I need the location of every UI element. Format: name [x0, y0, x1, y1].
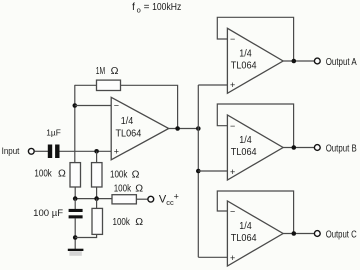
junction dot feedback/output: [175, 126, 180, 131]
svg-text:+: +: [230, 80, 235, 90]
op-amp U3 1/4 TL064: [227, 115, 283, 180]
svg-text:Ω: Ω: [58, 168, 66, 180]
Output A terminal: [314, 58, 320, 64]
label 100k ohm R2: [110, 168, 140, 180]
wire R2 top: [96, 151, 98, 162]
svg-text:100k: 100k: [114, 183, 132, 194]
svg-text:Output A: Output A: [326, 57, 357, 68]
wire U4 noninverting input: [198, 256, 227, 258]
junction dot ground node: [73, 235, 78, 240]
label 100k ohm R1: [34, 168, 66, 180]
wire U1 output to bus: [169, 128, 199, 130]
svg-text:100 µF: 100 µF: [33, 208, 63, 219]
svg-text:+: +: [114, 147, 119, 157]
svg-text:Ω: Ω: [132, 168, 140, 180]
label 100k ohm R4: [114, 182, 144, 194]
Output B terminal: [314, 145, 320, 151]
svg-text:1/4: 1/4: [239, 221, 252, 232]
wire 1M feedback left: [75, 84, 97, 86]
junction dot inverting node: [73, 103, 78, 108]
wire C2 to ground node: [74, 218, 76, 249]
op-amp U2 1/4 TL064: [227, 28, 283, 93]
wire node B to C2: [74, 199, 76, 209]
svg-text:f: f: [132, 1, 135, 13]
wire node B horizontal: [75, 198, 112, 200]
wire feedback vertical down to R1: [74, 85, 76, 163]
label Vcc+: [159, 192, 179, 208]
junction dot U4 output: [292, 231, 297, 236]
wire U3 feedback loop: [217, 104, 293, 148]
wire U3 noninverting input: [198, 170, 227, 172]
resistor R4 100k to Vcc: [112, 195, 136, 204]
op-amp U4 1/4 TL064: [227, 201, 283, 266]
svg-text:1/4: 1/4: [239, 48, 252, 59]
wire U2 noninverting input: [198, 84, 227, 86]
wire R4 to Vcc terminal: [136, 198, 147, 200]
wire U1 inverting input: [75, 105, 111, 107]
svg-text:TL064: TL064: [231, 60, 257, 71]
svg-text:−: −: [230, 34, 235, 44]
svg-text:100kHz: 100kHz: [152, 1, 181, 13]
svg-text:=: =: [144, 2, 150, 13]
wire U2 output: [283, 60, 314, 62]
wire R2 bottom: [96, 187, 98, 199]
junction dot U3 output: [292, 145, 297, 150]
resistor R1 100k: [70, 163, 81, 187]
junction dot node B right: [94, 196, 99, 201]
svg-text:Input: Input: [2, 146, 20, 156]
svg-text:Ω: Ω: [135, 182, 143, 194]
wire R5 top: [96, 199, 98, 209]
capacitor C1 1uF: [48, 145, 60, 159]
svg-text:1/4: 1/4: [239, 135, 252, 146]
svg-text:+: +: [230, 253, 235, 263]
wire U3 output: [283, 147, 314, 149]
resistor R3 1M: [97, 80, 121, 90]
svg-text:TL064: TL064: [116, 129, 142, 140]
ground: [68, 249, 84, 256]
junction dot output/bus: [196, 126, 201, 131]
Output C terminal: [314, 231, 320, 237]
svg-text:Output C: Output C: [326, 230, 357, 241]
wire U4 output: [283, 233, 314, 235]
wire 1M feedback right to output: [121, 85, 178, 128]
svg-text:Output B: Output B: [326, 144, 357, 155]
capacitor C2 100uF: [69, 209, 83, 219]
label 100k ohm R5: [113, 216, 144, 228]
label 1M ohm: [96, 65, 119, 77]
junction dot node B left: [73, 196, 78, 201]
label f_o = 100kHz: [132, 1, 181, 14]
wire vertical bus to buffer inputs: [197, 85, 199, 257]
svg-text:1M: 1M: [96, 66, 105, 77]
svg-text:−: −: [230, 206, 235, 216]
svg-text:100k: 100k: [34, 169, 52, 180]
svg-text:+: +: [174, 192, 179, 202]
junction dot U2 output: [292, 59, 297, 64]
svg-text:−: −: [230, 121, 235, 131]
svg-text:Ω: Ω: [111, 65, 119, 77]
svg-text:100k: 100k: [110, 169, 128, 180]
wire U4 feedback loop: [217, 191, 293, 234]
resistor R5 100k: [92, 208, 103, 234]
wire R5 bottom to ground node: [75, 234, 96, 237]
svg-text:100k: 100k: [113, 217, 131, 228]
svg-text:o: o: [137, 6, 141, 15]
svg-text:1/4: 1/4: [121, 116, 134, 127]
svg-text:TL064: TL064: [231, 233, 257, 244]
resistor R2 100k: [92, 163, 103, 187]
wire U2 feedback loop: [217, 17, 293, 61]
wire R1 bottom: [74, 187, 76, 199]
Vcc terminal: [148, 196, 154, 202]
op-amp U1 1/4 TL064: [111, 97, 169, 160]
input terminal: [28, 148, 34, 154]
junction dot bus to U3 input: [196, 169, 201, 174]
svg-text:+: +: [230, 167, 235, 177]
svg-text:−: −: [114, 101, 119, 111]
svg-text:1µF: 1µF: [46, 128, 61, 138]
wire C1 to op-amp U1 noninverting input, node A: [60, 150, 112, 152]
svg-text:Ω: Ω: [135, 216, 143, 228]
junction node A dot: [94, 149, 99, 154]
wire input terminal to C1: [35, 150, 48, 152]
svg-text:TL064: TL064: [231, 147, 257, 158]
